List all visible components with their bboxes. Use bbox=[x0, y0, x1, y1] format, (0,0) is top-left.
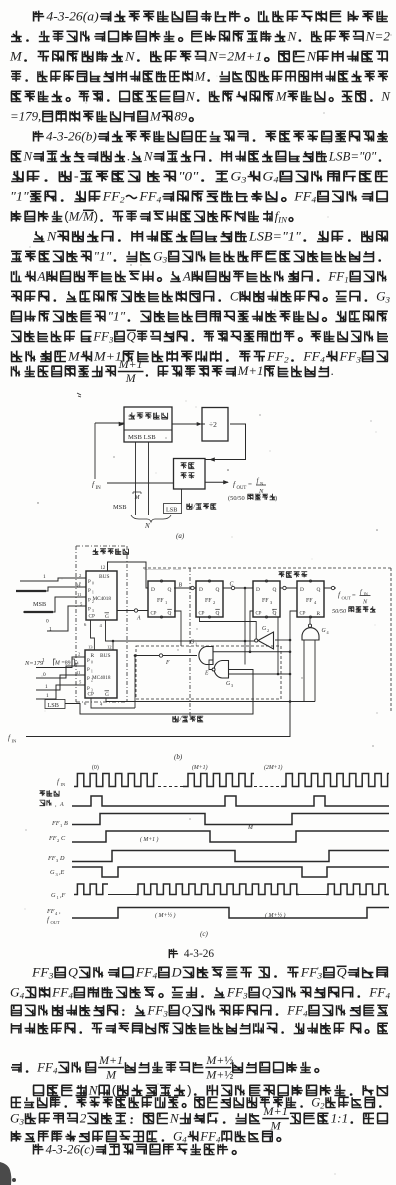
svg-text:3: 3 bbox=[91, 689, 93, 693]
svg-text:): ) bbox=[94, 208, 98, 223]
svg-text:M: M bbox=[105, 1067, 117, 1081]
svg-text:FF: FF bbox=[262, 598, 269, 604]
waveform row B FF1 output bbox=[51, 814, 389, 828]
label LSB box bbox=[164, 504, 182, 514]
svg-text:3: 3 bbox=[162, 255, 168, 265]
svg-text:M: M bbox=[134, 495, 141, 501]
svg-text:D: D bbox=[199, 587, 203, 593]
svg-text:N: N bbox=[46, 229, 57, 243]
svg-text:FF: FF bbox=[102, 189, 121, 203]
svg-text:FF: FF bbox=[51, 820, 60, 827]
wire FF1 Qbar stub bbox=[174, 611, 181, 646]
svg-text:LSB="0": LSB="0" bbox=[328, 149, 377, 163]
svg-text:CP: CP bbox=[300, 612, 306, 617]
svg-text:-: - bbox=[74, 168, 79, 183]
svg-text:( M+½ ): ( M+½ ) bbox=[265, 912, 286, 919]
svg-text:M+1: M+1 bbox=[98, 1053, 123, 1067]
svg-text:(b): (b) bbox=[174, 753, 183, 761]
svg-text:G: G bbox=[50, 869, 55, 876]
svg-text:,F: ,F bbox=[60, 892, 66, 899]
svg-text:FF: FF bbox=[226, 984, 244, 999]
svg-text:1: 1 bbox=[92, 591, 94, 595]
svg-text:C: C bbox=[230, 582, 234, 588]
U1 bottom cascade wires to U2 bbox=[91, 620, 95, 650]
svg-text:): ) bbox=[187, 1083, 191, 1098]
node bus lines N into divider bbox=[135, 442, 137, 515]
figure caption 4-3-26 bbox=[169, 949, 178, 959]
svg-text:P: P bbox=[88, 589, 91, 594]
flip-flop FF4 bbox=[297, 580, 324, 618]
svg-text:3: 3 bbox=[240, 175, 246, 185]
svg-text:"0": "0" bbox=[178, 169, 198, 184]
svg-text:M+: M+ bbox=[205, 1053, 224, 1067]
svg-text:FF: FF bbox=[306, 598, 313, 604]
node D - wire FF3 Q to FF4 D bbox=[280, 587, 297, 589]
svg-text:Q: Q bbox=[127, 329, 136, 343]
stray scan mark bbox=[77, 393, 81, 397]
svg-text:OUT: OUT bbox=[342, 596, 352, 601]
svg-text:D: D bbox=[151, 587, 155, 593]
flip-flop FF1 bbox=[148, 580, 175, 618]
svg-text:M+1: M+1 bbox=[262, 1104, 288, 1118]
svg-text:4: 4 bbox=[216, 1135, 221, 1145]
svg-text:1: 1 bbox=[91, 670, 93, 674]
svg-text:1: 1 bbox=[344, 275, 348, 285]
svg-text:4-3-26(c): 4-3-26(c) bbox=[46, 1142, 95, 1156]
svg-text:Q: Q bbox=[262, 984, 272, 999]
svg-text:89: 89 bbox=[174, 109, 187, 123]
vertical wire node C down to G3 input bbox=[244, 588, 246, 665]
svg-text:N: N bbox=[23, 149, 34, 163]
svg-text:LSB="1": LSB="1" bbox=[248, 229, 301, 243]
svg-text:,E: ,E bbox=[59, 869, 65, 876]
svg-text:BUS: BUS bbox=[99, 574, 110, 580]
svg-text:FF: FF bbox=[327, 268, 345, 283]
label odd/even control (b) bbox=[173, 716, 204, 722]
svg-text:M+1: M+1 bbox=[237, 364, 264, 378]
svg-text:CP: CP bbox=[199, 612, 205, 617]
svg-text:P: P bbox=[88, 608, 91, 613]
dashed box odd/even control section bbox=[136, 646, 281, 699]
svg-text:13: 13 bbox=[88, 645, 93, 650]
label LSB (b) bbox=[45, 700, 65, 709]
svg-text:2: 2 bbox=[92, 600, 94, 604]
svg-text:N: N bbox=[185, 89, 196, 103]
svg-text:FF: FF bbox=[199, 1129, 216, 1143]
svg-text:(2M+1): (2M+1) bbox=[264, 764, 282, 771]
svg-text:4: 4 bbox=[153, 971, 158, 981]
label 50/50 duty cycle (b) bbox=[332, 606, 376, 615]
svg-text:Q: Q bbox=[273, 587, 277, 593]
svg-text:IN: IN bbox=[277, 215, 288, 225]
svg-text:M: M bbox=[125, 371, 137, 385]
svg-text:4: 4 bbox=[53, 1066, 58, 1076]
svg-text:2: 2 bbox=[284, 355, 289, 365]
svg-text:P: P bbox=[87, 668, 90, 673]
gate G3 NAND mirrored 3-input bbox=[212, 661, 233, 688]
wire G3 input from f_in riser bbox=[229, 673, 291, 675]
svg-text:Q: Q bbox=[317, 587, 321, 593]
wire G1 output F line to U2 clock bbox=[135, 655, 197, 657]
wire FF4 R to G4 output bbox=[309, 617, 311, 624]
svg-text:1: 1 bbox=[195, 641, 197, 646]
svg-text:Q: Q bbox=[168, 587, 172, 593]
svg-text:N: N bbox=[88, 1083, 99, 1098]
svg-text:3: 3 bbox=[48, 971, 54, 981]
svg-text:P: P bbox=[88, 599, 91, 604]
scan noise specks bbox=[128, 179, 129, 180]
svg-text:3: 3 bbox=[385, 295, 391, 305]
svg-text:11: 11 bbox=[77, 592, 82, 597]
node C - wire FF2 Q to FF3 D bbox=[223, 587, 253, 589]
svg-text:A: A bbox=[59, 802, 64, 808]
svg-text:A: A bbox=[36, 268, 45, 283]
svg-text:FF: FF bbox=[92, 329, 109, 343]
svg-text:11: 11 bbox=[76, 670, 81, 675]
svg-text:G: G bbox=[230, 169, 241, 184]
svg-text:FF: FF bbox=[48, 835, 57, 842]
svg-text:M: M bbox=[269, 1118, 281, 1132]
U1 input wires MSB group with binary values bbox=[16, 574, 86, 633]
svg-text:50/50: 50/50 bbox=[332, 608, 347, 615]
wire clock line f_in to G1/FF3/FF4 clocks bbox=[213, 651, 290, 653]
svg-text:12: 12 bbox=[107, 645, 112, 650]
label 50/50 duty cycle (a) bbox=[228, 494, 277, 502]
faint annotation above FF1 bbox=[144, 569, 181, 571]
svg-text:12: 12 bbox=[101, 566, 106, 571]
svg-text:LSB: LSB bbox=[48, 702, 59, 709]
block divide-by-2 (a) bbox=[202, 408, 228, 442]
waveform row A divider output bbox=[40, 790, 390, 808]
svg-text:4: 4 bbox=[20, 991, 25, 1001]
svg-text:2: 2 bbox=[57, 838, 59, 843]
svg-text:G: G bbox=[105, 614, 109, 620]
svg-text:FF: FF bbox=[205, 598, 212, 604]
svg-text:÷2: ÷2 bbox=[209, 420, 217, 429]
svg-text:4-3-26: 4-3-26 bbox=[184, 948, 214, 960]
svg-text:A: A bbox=[182, 268, 191, 283]
svg-text:4: 4 bbox=[68, 991, 73, 1001]
svg-text:M: M bbox=[149, 109, 162, 123]
node E - wire G3 output to G1 input bbox=[209, 660, 213, 670]
svg-text:FF: FF bbox=[266, 349, 285, 363]
svg-text:D: D bbox=[171, 965, 182, 980]
svg-text:3: 3 bbox=[19, 1117, 25, 1127]
svg-text:M/: M/ bbox=[68, 209, 85, 223]
U2 bottom pin wires bbox=[91, 698, 135, 708]
svg-text:4: 4 bbox=[303, 1009, 308, 1019]
svg-text:M+: M+ bbox=[205, 1067, 224, 1081]
wire G2 output to U2 pin12 line bbox=[113, 640, 255, 642]
svg-text:G: G bbox=[105, 692, 109, 698]
svg-text:G: G bbox=[262, 169, 273, 184]
svg-text:D: D bbox=[59, 855, 65, 862]
svg-text:1: 1 bbox=[57, 895, 59, 900]
svg-text:(: ( bbox=[112, 1083, 117, 1098]
svg-text:3: 3 bbox=[231, 683, 233, 688]
svg-text:N: N bbox=[380, 89, 391, 103]
svg-text:B: B bbox=[179, 583, 183, 589]
wire divider to div2 bbox=[172, 423, 205, 425]
svg-text:FF: FF bbox=[293, 189, 312, 203]
svg-text:P: P bbox=[88, 580, 91, 585]
wire LSB to control logic bbox=[181, 489, 183, 504]
svg-text:3: 3 bbox=[355, 355, 361, 365]
svg-text:N=2M+1: N=2M+1 bbox=[207, 49, 262, 63]
svg-text:FF: FF bbox=[46, 908, 55, 915]
svg-text:4: 4 bbox=[273, 175, 278, 185]
paragraph: FF3/FF4 connection explanation bbox=[31, 965, 388, 981]
svg-text:N: N bbox=[362, 599, 368, 606]
wire div2 output feedback to control logic bbox=[206, 424, 246, 460]
svg-text:½: ½ bbox=[224, 1053, 233, 1067]
svg-text:FF: FF bbox=[51, 984, 69, 999]
svg-text:D: D bbox=[256, 587, 260, 593]
svg-text:FF: FF bbox=[368, 984, 386, 999]
svg-text:.: . bbox=[127, 149, 130, 163]
gate G1 NAND mirrored bbox=[190, 640, 213, 665]
svg-text:P: P bbox=[87, 659, 90, 664]
svg-text:"1": "1" bbox=[108, 308, 126, 323]
wire FF3 clock riser bbox=[250, 611, 253, 652]
svg-text:2: 2 bbox=[320, 1100, 325, 1110]
svg-text:Q: Q bbox=[182, 1002, 192, 1017]
svg-text:CP: CP bbox=[151, 612, 157, 617]
svg-text:3: 3 bbox=[317, 971, 323, 981]
svg-text:FF: FF bbox=[36, 1060, 53, 1074]
svg-text:=: = bbox=[352, 592, 356, 599]
svg-text:=: = bbox=[248, 481, 252, 489]
svg-text:G: G bbox=[311, 1095, 320, 1109]
waveform row f_in clock bbox=[57, 764, 389, 787]
svg-text:MSB: MSB bbox=[113, 504, 127, 511]
svg-text:1: 1 bbox=[49, 627, 52, 633]
svg-text:M: M bbox=[9, 49, 23, 63]
brace N under bus bbox=[131, 515, 171, 522]
wire LSB odd/even control line to G3 bbox=[65, 670, 253, 715]
svg-text:2: 2 bbox=[80, 1110, 87, 1125]
svg-text:(a): (a) bbox=[176, 532, 185, 540]
svg-text:N=179: N=179 bbox=[24, 660, 44, 667]
wire FF3 Qbar down to G3 input line bbox=[277, 617, 279, 674]
svg-text:M+1: M+1 bbox=[93, 349, 122, 363]
svg-text:(0): (0) bbox=[92, 764, 99, 771]
block divider (a) - box "digital divider" with MSB LSB bbox=[124, 407, 172, 442]
svg-text:4: 4 bbox=[182, 1135, 187, 1145]
IC U1 MC4018 upper counter bbox=[76, 571, 117, 620]
svg-text:½: ½ bbox=[224, 1067, 233, 1081]
svg-text:B: B bbox=[64, 820, 68, 827]
svg-text:2: 2 bbox=[120, 195, 125, 205]
label fout formula (b) bbox=[338, 589, 371, 606]
svg-text:3: 3 bbox=[242, 991, 248, 1001]
svg-text:G: G bbox=[51, 892, 56, 899]
block control logic (a) bbox=[174, 459, 206, 490]
svg-text:"1": "1" bbox=[10, 189, 29, 203]
waveform row fout FF4 output bbox=[46, 908, 389, 926]
svg-text:1: 1 bbox=[165, 600, 167, 605]
wire G4 inputs bbox=[303, 640, 305, 702]
svg-text:M: M bbox=[194, 69, 207, 83]
svg-text:1: 1 bbox=[46, 693, 49, 699]
svg-text:2: 2 bbox=[91, 679, 93, 683]
dashed box digital divider section bbox=[76, 546, 127, 702]
label digital divider (b) bbox=[93, 548, 129, 554]
svg-text:P: P bbox=[87, 677, 90, 682]
svg-text:OUT: OUT bbox=[237, 486, 247, 491]
svg-text:1:1: 1:1 bbox=[331, 1110, 349, 1125]
svg-text:(50/50: (50/50 bbox=[228, 495, 245, 502]
svg-text:1: 1 bbox=[60, 823, 62, 828]
svg-text:A: A bbox=[136, 616, 141, 622]
svg-text:MSB LSB: MSB LSB bbox=[128, 434, 156, 441]
svg-text:Q: Q bbox=[216, 611, 220, 617]
svg-text:FF: FF bbox=[286, 1002, 304, 1017]
svg-text:N: N bbox=[286, 28, 297, 43]
svg-text:N: N bbox=[169, 1110, 180, 1125]
svg-text:N: N bbox=[143, 149, 154, 163]
svg-text:N: N bbox=[124, 49, 135, 63]
svg-text:Q: Q bbox=[216, 587, 220, 593]
label odd/even control (a) bbox=[187, 503, 217, 509]
svg-text:"1": "1" bbox=[94, 248, 112, 263]
wire G2 input from f_in riser bbox=[275, 639, 290, 641]
wire FF4 Q output to fout bbox=[324, 587, 336, 589]
svg-text:P: P bbox=[87, 687, 90, 692]
svg-text:M+1: M+1 bbox=[118, 357, 143, 371]
wire FF4 clock riser bbox=[290, 611, 297, 652]
svg-text:N=2: N=2 bbox=[365, 28, 391, 43]
waveform row E G3 output bbox=[50, 867, 389, 877]
scan artifact bottom left corner bbox=[0, 1162, 11, 1185]
svg-text:4: 4 bbox=[385, 991, 390, 1001]
svg-text:4: 4 bbox=[311, 195, 316, 205]
svg-text:=89: =89 bbox=[62, 661, 71, 667]
svg-text:CP: CP bbox=[256, 612, 262, 617]
svg-text:0: 0 bbox=[43, 672, 46, 678]
svg-text:(c): (c) bbox=[200, 930, 208, 938]
node B - wire FF1 Q to FF2 D bbox=[174, 587, 196, 589]
svg-text:Q: Q bbox=[273, 611, 277, 617]
dashed box control logic section bbox=[143, 568, 391, 712]
svg-text:( M+½ ): ( M+½ ) bbox=[155, 912, 176, 919]
svg-text:3: 3 bbox=[108, 335, 114, 345]
svg-text:3: 3 bbox=[162, 1009, 168, 1019]
svg-text:2: 2 bbox=[213, 600, 215, 605]
waveform row D FF3 output bbox=[47, 851, 389, 863]
svg-text:F: F bbox=[165, 660, 170, 666]
svg-text:4-3-26(b): 4-3-26(b) bbox=[46, 128, 97, 143]
node A - wire U1 to FF1 clock bbox=[117, 610, 148, 612]
wire divider left feedback bbox=[95, 422, 124, 424]
svg-text:MSB: MSB bbox=[33, 601, 46, 608]
svg-text:FF: FF bbox=[338, 349, 357, 363]
svg-text:MC4018: MC4018 bbox=[93, 596, 112, 602]
flip-flop FF2 bbox=[196, 580, 223, 618]
label control logic (b) bbox=[279, 571, 308, 577]
svg-text:3: 3 bbox=[92, 609, 94, 613]
svg-text:FF: FF bbox=[300, 965, 319, 980]
waveform row C FF2 output bbox=[48, 825, 389, 843]
svg-text:LSB: LSB bbox=[166, 507, 177, 514]
svg-text:(M+1): (M+1) bbox=[192, 764, 208, 771]
svg-text:0: 0 bbox=[91, 661, 93, 665]
svg-text:Q: Q bbox=[168, 611, 172, 617]
svg-text:1: 1 bbox=[45, 684, 48, 690]
svg-text:FF: FF bbox=[146, 1002, 164, 1017]
svg-text:4-3-26(a): 4-3-26(a) bbox=[46, 9, 99, 24]
svg-text:MC4018: MC4018 bbox=[92, 675, 111, 681]
waveform row F G1 output gated clock bbox=[51, 884, 389, 900]
svg-text:BUS: BUS bbox=[100, 653, 111, 659]
svg-text:1: 1 bbox=[43, 574, 46, 580]
svg-text:OUT: OUT bbox=[51, 920, 60, 925]
IC U2 MC4018 lower counter bbox=[74, 650, 117, 698]
svg-text:CP: CP bbox=[89, 614, 95, 620]
svg-text:=179,: =179, bbox=[10, 109, 41, 123]
svg-text:E: E bbox=[204, 671, 209, 677]
svg-text:0: 0 bbox=[92, 582, 94, 586]
flip-flop FF3 bbox=[253, 580, 280, 618]
svg-text:N: N bbox=[306, 49, 317, 63]
svg-text:R: R bbox=[91, 653, 95, 659]
svg-text:2: 2 bbox=[267, 628, 269, 633]
svg-text:C: C bbox=[230, 288, 239, 303]
svg-text:0: 0 bbox=[46, 619, 49, 625]
svg-text:R: R bbox=[317, 611, 321, 617]
paragraph: simplification for any N bbox=[33, 1083, 388, 1098]
svg-text:FF: FF bbox=[157, 598, 164, 604]
wire control logic output fout bbox=[206, 481, 229, 483]
svg-text:FF: FF bbox=[138, 189, 157, 203]
svg-text:FF: FF bbox=[135, 965, 154, 980]
svg-text:( M+1 ): ( M+1 ) bbox=[140, 836, 158, 843]
svg-text:4: 4 bbox=[320, 355, 325, 365]
svg-text:FF: FF bbox=[47, 855, 56, 862]
gate G2 inverter bbox=[255, 626, 274, 649]
svg-text:M: M bbox=[275, 89, 288, 103]
paragraph: intro text about numerically-controlled divider bbox=[33, 9, 388, 24]
gate G4 NAND pointing up bbox=[302, 624, 330, 640]
svg-text:IN: IN bbox=[96, 486, 102, 491]
svg-text:.: . bbox=[331, 364, 334, 378]
svg-text:IN: IN bbox=[12, 739, 18, 744]
svg-text:Q: Q bbox=[68, 965, 78, 980]
svg-text:4: 4 bbox=[157, 195, 162, 205]
svg-text:D: D bbox=[300, 587, 304, 593]
svg-text:FF: FF bbox=[302, 349, 321, 363]
U2 input wires with binary values of M=89 bbox=[36, 657, 85, 699]
svg-text:N: N bbox=[144, 522, 150, 530]
wire FF2 clock from G2 output bbox=[200, 617, 257, 639]
svg-text:FF: FF bbox=[31, 965, 50, 980]
svg-text:): ) bbox=[275, 495, 277, 502]
svg-text:M: M bbox=[67, 349, 80, 363]
